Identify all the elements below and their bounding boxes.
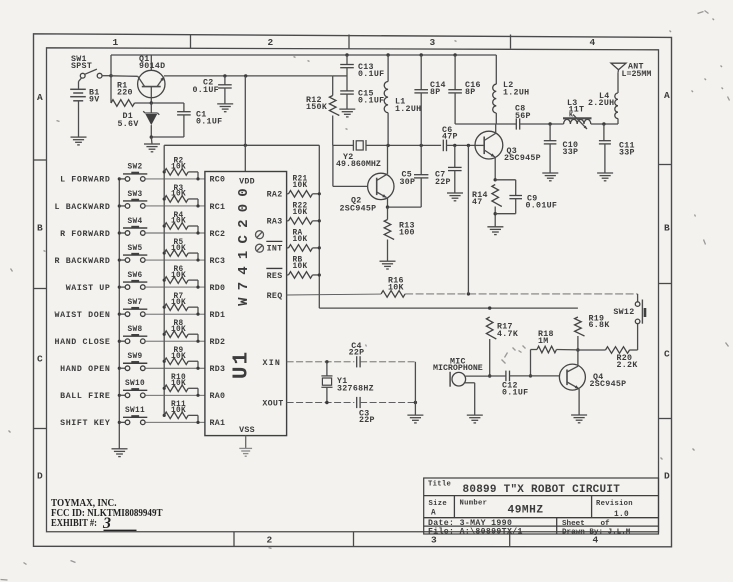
svg-text:10K: 10K: [171, 380, 186, 388]
svg-text:RD3: RD3: [210, 365, 226, 374]
svg-text:RC0: RC0: [210, 176, 226, 185]
svg-text:SPST: SPST: [71, 62, 92, 71]
svg-text:3: 3: [102, 515, 111, 532]
svg-text:1M: 1M: [538, 337, 549, 346]
svg-text:33P: 33P: [563, 148, 579, 157]
svg-text:220: 220: [117, 89, 133, 98]
svg-text:0.01UF: 0.01UF: [526, 202, 558, 211]
svg-text:10K: 10K: [171, 272, 186, 280]
svg-text:32768HZ: 32768HZ: [337, 385, 374, 394]
svg-text:10K: 10K: [171, 164, 186, 172]
svg-text:MICROPHONE: MICROPHONE: [433, 364, 483, 373]
svg-text:RA2: RA2: [267, 191, 283, 200]
svg-text:Drawn By: J.L.M: Drawn By: J.L.M: [562, 528, 631, 536]
svg-text:10K: 10K: [388, 284, 404, 293]
svg-text:SW11: SW11: [125, 407, 145, 415]
svg-text:RA0: RA0: [210, 392, 226, 401]
svg-text:L FORWARD: L FORWARD: [60, 176, 110, 185]
svg-text:33P: 33P: [619, 149, 635, 158]
svg-text:WAIST DOEN: WAIST DOEN: [55, 311, 111, 320]
svg-text:VSS: VSS: [239, 426, 255, 435]
svg-text:SW12: SW12: [613, 308, 634, 317]
svg-text:SW4: SW4: [128, 218, 143, 226]
svg-text:0.1UF: 0.1UF: [502, 389, 528, 398]
svg-text:22P: 22P: [359, 416, 375, 425]
svg-text:22P: 22P: [349, 349, 365, 358]
svg-text:REQ: REQ: [267, 292, 283, 301]
svg-text:B: B: [664, 223, 670, 234]
svg-text:SW7: SW7: [128, 299, 143, 307]
svg-text:R BACKWARD: R BACKWARD: [55, 257, 111, 266]
svg-text:Sheet: Sheet: [562, 520, 585, 528]
svg-text:10K: 10K: [171, 299, 186, 307]
svg-text:RA3: RA3: [267, 218, 283, 227]
svg-text:RC1: RC1: [210, 203, 226, 212]
svg-text:2.2UH: 2.2UH: [588, 99, 614, 108]
svg-text:L=25MM: L=25MM: [622, 70, 652, 79]
svg-text:10K: 10K: [293, 209, 308, 217]
svg-text:10K: 10K: [293, 263, 308, 271]
svg-text:10K: 10K: [293, 236, 308, 244]
svg-text:4: 4: [589, 37, 595, 48]
svg-text:49.860MHZ: 49.860MHZ: [336, 160, 381, 169]
svg-text:2SC945P: 2SC945P: [340, 205, 377, 214]
svg-text:47: 47: [472, 198, 483, 207]
svg-text:10K: 10K: [293, 182, 308, 190]
svg-text:0.1UF: 0.1UF: [358, 70, 384, 79]
svg-text:SW6: SW6: [128, 272, 143, 280]
svg-text:Revision: Revision: [596, 500, 633, 508]
svg-text:10K: 10K: [171, 245, 186, 253]
svg-text:HAND OPEN: HAND OPEN: [60, 365, 110, 374]
svg-text:47P: 47P: [442, 133, 458, 142]
svg-text:22P: 22P: [435, 178, 451, 187]
svg-text:A: A: [664, 90, 670, 101]
svg-text:Number: Number: [460, 500, 488, 508]
svg-text:10K: 10K: [171, 326, 186, 334]
svg-text:1.2UH: 1.2UH: [395, 105, 421, 114]
svg-text:2SC945P: 2SC945P: [590, 380, 627, 389]
svg-text:2: 2: [267, 37, 273, 48]
svg-text:100: 100: [399, 229, 415, 238]
svg-text:RES: RES: [267, 272, 283, 281]
svg-text:WAIST UP: WAIST UP: [66, 284, 111, 293]
svg-text:6.8K: 6.8K: [589, 321, 610, 330]
svg-text:W741C200: W741C200: [236, 181, 252, 306]
svg-text:RA1: RA1: [210, 419, 226, 428]
svg-text:A: A: [431, 510, 436, 518]
svg-text:File: A:\80899TX/1: File: A:\80899TX/1: [428, 526, 523, 536]
svg-text:SHIFT KEY: SHIFT KEY: [60, 419, 110, 428]
svg-text:10K: 10K: [171, 191, 186, 199]
svg-text:9V: 9V: [89, 96, 100, 105]
svg-text:10K: 10K: [171, 218, 186, 226]
svg-text:XOUT: XOUT: [262, 399, 283, 408]
svg-text:RD0: RD0: [210, 284, 226, 293]
svg-text:D: D: [37, 471, 43, 482]
svg-text:R FORWARD: R FORWARD: [60, 230, 110, 239]
svg-text:30P: 30P: [400, 178, 416, 187]
svg-text:SW5: SW5: [128, 245, 143, 253]
svg-text:U1: U1: [231, 350, 254, 379]
svg-text:Title: Title: [428, 481, 451, 489]
svg-text:C: C: [664, 349, 670, 360]
svg-text:BALL FIRE: BALL FIRE: [60, 392, 110, 401]
svg-text:B: B: [37, 223, 43, 234]
svg-text:1: 1: [112, 37, 118, 48]
svg-text:1.2UH: 1.2UH: [503, 89, 529, 98]
svg-text:80899 T"X ROBOT CIRCUIT: 80899 T"X ROBOT CIRCUIT: [463, 484, 621, 496]
svg-text:SW2: SW2: [128, 164, 143, 172]
svg-text:150K: 150K: [306, 103, 327, 112]
svg-text:8P: 8P: [430, 88, 441, 97]
svg-text:SW3: SW3: [128, 191, 143, 199]
svg-text:8P: 8P: [465, 88, 476, 97]
svg-text:Size: Size: [429, 500, 447, 508]
svg-text:1.0: 1.0: [614, 511, 629, 519]
svg-text:XIN: XIN: [263, 359, 282, 368]
svg-text:EXHIBIT #:: EXHIBIT #:: [51, 517, 97, 529]
svg-text:9014D: 9014D: [139, 62, 165, 71]
svg-text:INT: INT: [267, 245, 283, 254]
svg-text:SW8: SW8: [128, 326, 143, 334]
svg-text:3: 3: [429, 37, 435, 48]
svg-text:2.2K: 2.2K: [617, 361, 638, 370]
svg-text:C: C: [37, 354, 43, 365]
svg-text:A: A: [37, 92, 43, 103]
svg-text:56P: 56P: [515, 112, 531, 121]
svg-text:0.1UF: 0.1UF: [358, 97, 384, 106]
svg-text:5.6V: 5.6V: [118, 120, 139, 129]
svg-text:SW9: SW9: [128, 353, 143, 361]
svg-text:10K: 10K: [171, 353, 186, 361]
svg-text:49MHZ: 49MHZ: [508, 505, 544, 517]
svg-text:RC3: RC3: [210, 257, 226, 266]
svg-text:D: D: [664, 471, 670, 482]
svg-text:0.1UF: 0.1UF: [196, 117, 222, 126]
svg-text:of: of: [601, 520, 611, 528]
svg-text:RD1: RD1: [210, 311, 226, 320]
svg-text:2SC945P: 2SC945P: [504, 154, 541, 163]
svg-text:4.7K: 4.7K: [497, 330, 518, 339]
svg-text:L BACKWARD: L BACKWARD: [55, 203, 111, 212]
svg-text:HAND CLOSE: HAND CLOSE: [55, 338, 111, 347]
svg-text:2: 2: [266, 535, 272, 546]
svg-text:10K: 10K: [171, 407, 186, 415]
svg-text:SW10: SW10: [125, 380, 145, 388]
svg-text:K: K: [569, 111, 573, 118]
svg-text:0.1UF: 0.1UF: [193, 86, 219, 95]
svg-text:RC2: RC2: [210, 230, 226, 239]
svg-text:RD2: RD2: [210, 338, 226, 347]
